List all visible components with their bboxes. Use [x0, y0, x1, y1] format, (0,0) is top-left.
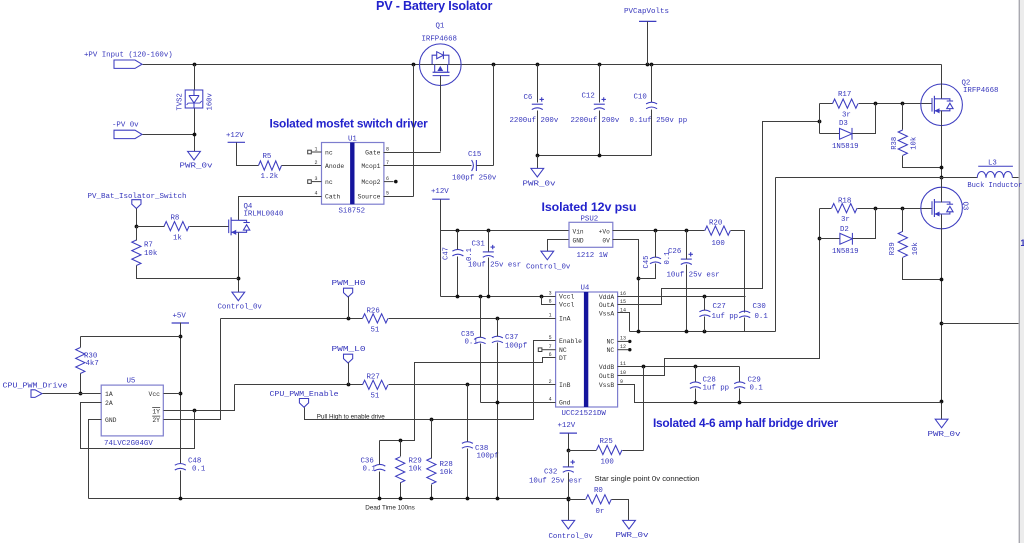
svg-text:0.1: 0.1	[363, 466, 377, 474]
junction PWM_L0 stem	[347, 383, 351, 387]
resistor R17	[833, 99, 859, 108]
svg-text:R28: R28	[440, 461, 453, 469]
junctions rail B	[456, 295, 544, 299]
svg-text:Control_0v: Control_0v	[218, 303, 263, 311]
Q1 channel and gate bars	[433, 64, 450, 75]
wire R18 right to Q3 gate	[858, 208, 933, 210]
resistor R5	[259, 161, 282, 170]
svg-text:PV_Bat_Isolator_Switch: PV_Bat_Isolator_Switch	[88, 193, 187, 201]
wire Q4 source down	[238, 233, 240, 293]
svg-text:NC: NC	[607, 347, 615, 354]
wire R29 bottom	[400, 483, 402, 499]
wire PWM_H0 stem	[348, 297, 350, 319]
wire U4 OutB to Q3 gate net	[618, 209, 820, 376]
wire R18 left lead	[820, 208, 832, 210]
svg-text:0.1: 0.1	[755, 313, 769, 321]
svg-text:Pull High to enable drive: Pull High to enable drive	[317, 413, 386, 420]
svg-text:Control_0v: Control_0v	[526, 264, 571, 272]
wire C10 top	[651, 65, 653, 103]
svg-text:3r: 3r	[842, 112, 851, 120]
junction cap bank rail	[536, 154, 602, 158]
junction Q3 source / R39	[940, 278, 944, 282]
wire R38 top	[902, 104, 904, 130]
resistor R20	[705, 226, 731, 235]
port PWM_L0	[344, 354, 353, 363]
svg-text:+12V: +12V	[431, 188, 449, 196]
svg-text:PV - Battery Isolator: PV - Battery Isolator	[376, 0, 492, 13]
wire Vccl pin8 stub	[542, 297, 556, 305]
svg-text:10k: 10k	[409, 466, 423, 474]
wire D3 right up to R17 node	[853, 104, 876, 134]
svg-text:2200uf 200v: 2200uf 200v	[510, 117, 559, 125]
svg-text:C45: C45	[643, 256, 651, 269]
wire C27 top	[704, 297, 706, 311]
capacitor C26	[681, 252, 693, 264]
svg-text:2Y: 2Y	[152, 417, 160, 424]
wire U1 Cath to Q4 drain	[239, 197, 322, 221]
wire DT net	[380, 358, 556, 441]
svg-text:10k: 10k	[440, 469, 454, 477]
resistor R29	[396, 457, 405, 483]
power +5V	[172, 322, 189, 324]
svg-text:C10: C10	[634, 94, 647, 102]
transistor Q2 symbol	[932, 96, 953, 114]
svg-text:-PV 0v: -PV 0v	[112, 121, 139, 129]
wire C32 bottom	[568, 473, 570, 521]
svg-text:Source: Source	[357, 194, 380, 201]
wire U1 Mcop1 to C15	[384, 165, 472, 167]
svg-text:C48: C48	[188, 457, 201, 465]
wire D3 left lead	[820, 133, 840, 135]
transistor Q3 symbol	[932, 199, 953, 217]
resistor R26	[363, 314, 389, 323]
svg-text:nc: nc	[325, 149, 333, 156]
wire C15 to bus branch	[477, 165, 494, 167]
svg-text:VddB: VddB	[599, 364, 615, 371]
svg-text:Gnd: Gnd	[559, 399, 571, 406]
svg-text:8: 8	[386, 146, 389, 152]
op-amp U1 Si8752 box	[322, 143, 384, 205]
wire U5 GND	[89, 420, 102, 499]
svg-text:1: 1	[1020, 238, 1024, 248]
wire C6 bottom	[537, 111, 539, 156]
Q3 MOSFET circle	[921, 187, 963, 229]
wire U4 VssA to rail	[618, 313, 630, 332]
wire U4 Gnd row	[481, 402, 556, 404]
wire C27 bottom	[704, 317, 706, 332]
svg-text:10uf 25v esr: 10uf 25v esr	[468, 261, 521, 269]
page right edge strip	[1019, 0, 1024, 543]
wire R25 right lead	[623, 450, 644, 452]
wire InA row (PWM_H0 net)	[221, 318, 556, 320]
capacitor C36	[374, 464, 385, 470]
svg-text:OutA: OutA	[599, 302, 615, 309]
svg-text:Vccl: Vccl	[559, 294, 575, 301]
svg-text:4: 4	[549, 396, 552, 402]
wire 1Y to 2A loop	[81, 403, 195, 449]
junction PWM_H0 stem	[347, 317, 351, 321]
svg-text:R17: R17	[838, 91, 851, 99]
port +PV Input	[114, 60, 142, 68]
wire U4 VssB to PWR_0v rail	[618, 385, 942, 403]
svg-text:0.1: 0.1	[466, 248, 474, 261]
capacitor C10	[646, 102, 657, 109]
wire right feed to edge	[942, 323, 1019, 325]
wire TVS2 bottom to -PV node	[194, 109, 196, 152]
svg-text:R18: R18	[838, 197, 851, 205]
svg-text:DT: DT	[559, 355, 567, 362]
wire R39 top	[902, 209, 904, 232]
wire C47 bottom	[457, 257, 459, 297]
junctions R18 out / R39	[874, 207, 905, 211]
svg-text:C15: C15	[468, 151, 481, 159]
wire U4 VddA row	[618, 296, 746, 298]
U4 NC stub pin7	[538, 348, 555, 352]
wire R25 left lead	[569, 450, 597, 452]
wire half-bridge VssA link	[775, 178, 777, 332]
svg-text:1212 1W: 1212 1W	[577, 252, 609, 260]
svg-text:Mcop2: Mcop2	[361, 179, 380, 186]
svg-text:PWR_0v: PWR_0v	[616, 532, 650, 540]
wire U1 Gate to Q1	[384, 152, 441, 154]
power module PSU2 box	[569, 222, 613, 247]
wire C32 top	[568, 451, 570, 467]
capacitor C48	[175, 464, 186, 471]
wire R30 top link	[81, 336, 181, 338]
svg-text:C6: C6	[524, 94, 533, 102]
svg-text:Star single point 0v connectio: Star single point 0v connection	[595, 474, 700, 483]
svg-text:UCC21521DW: UCC21521DW	[562, 410, 607, 418]
wire +PV bus	[143, 64, 942, 66]
wire switch node bus	[776, 177, 1019, 179]
wire VddB to R25	[643, 367, 645, 451]
junction star point	[567, 498, 571, 502]
wire PSU2 GND to Control_0v	[548, 240, 569, 252]
svg-text:7: 7	[549, 344, 552, 350]
svg-text:NC: NC	[559, 347, 567, 354]
svg-text:Isolated 4-6 amp half bridge d: Isolated 4-6 amp half bridge driver	[653, 416, 838, 430]
svg-text:IRFP4668: IRFP4668	[422, 36, 457, 44]
svg-text:CPU_PWM_Drive: CPU_PWM_Drive	[3, 382, 68, 390]
wire R28 bottom	[431, 485, 433, 499]
svg-text:0.1uf 250v pp: 0.1uf 250v pp	[630, 117, 688, 125]
junction InB / C38	[466, 383, 470, 387]
capacitor C32	[563, 460, 575, 472]
wire InB row (PWM_L0 net)	[235, 384, 556, 386]
wire R39 bottom	[903, 258, 942, 280]
svg-text:R20: R20	[709, 219, 722, 227]
junction Q4 source / R7	[237, 277, 241, 281]
wire cap bank 0v rail	[538, 155, 652, 156]
resistor R0	[586, 495, 612, 504]
driver U4 UCC21521DW box	[556, 292, 618, 407]
svg-text:6: 6	[386, 176, 389, 182]
wire C12 top	[599, 65, 601, 103]
svg-text:1k: 1k	[173, 234, 182, 242]
U4 NC stub pin12	[618, 348, 632, 351]
svg-text:Gate: Gate	[365, 149, 381, 156]
svg-text:+12V: +12V	[558, 422, 576, 430]
wire C35 top	[480, 297, 482, 338]
junction Enable / R28	[430, 418, 434, 422]
U1 nc stub pin3	[308, 180, 322, 184]
wire C37 top	[497, 319, 499, 337]
power +12V (R5)	[228, 141, 245, 143]
svg-text:1: 1	[549, 313, 552, 319]
svg-text:Enable: Enable	[559, 338, 582, 345]
wire CPU_PWM_Drive to 1A	[43, 393, 102, 395]
wire rail B Vccl	[441, 296, 556, 298]
svg-text:NC: NC	[607, 339, 615, 346]
wire R8 to Q4 gate	[190, 226, 229, 228]
svg-text:10k: 10k	[144, 250, 158, 258]
svg-text:13: 13	[620, 336, 626, 342]
svg-text:GND: GND	[573, 238, 584, 245]
junction DT / R29	[399, 439, 403, 443]
svg-text:100pf 250v: 100pf 250v	[452, 174, 497, 182]
wire R17/D3 left leg	[819, 104, 821, 134]
svg-text:51: 51	[371, 393, 380, 401]
svg-text:C12: C12	[582, 93, 595, 101]
wire C28 bottom	[695, 389, 697, 403]
U1 Mcop2 stub pin6	[384, 180, 398, 184]
ground PWR_0v (cap bank)	[531, 168, 544, 177]
wire +5V riser below C48	[180, 471, 182, 499]
svg-text:1Y: 1Y	[152, 408, 160, 415]
wire PWM_L0 stem	[348, 363, 350, 385]
resistor R18	[832, 204, 858, 213]
inductor L3	[977, 172, 1012, 178]
svg-text:1A: 1A	[105, 391, 113, 398]
wire VssA rail	[630, 331, 776, 333]
svg-text:+PV Input (120-160v): +PV Input (120-160v)	[84, 51, 173, 59]
svg-text:U1: U1	[348, 135, 357, 143]
wire switch port to R8 node	[136, 209, 138, 227]
svg-text:100: 100	[712, 240, 725, 248]
junction +5V / R30 top	[179, 335, 183, 339]
wire C47 top	[457, 231, 459, 250]
junction R30 / 1A	[79, 392, 83, 396]
wire R8 left lead	[137, 226, 165, 228]
svg-text:0.1: 0.1	[465, 338, 479, 346]
svg-text:InB: InB	[559, 382, 571, 389]
svg-text:3: 3	[314, 176, 317, 182]
wire R18/D2 left leg	[819, 209, 821, 239]
svg-text:3: 3	[549, 291, 552, 297]
junction R8/R7	[135, 225, 139, 229]
svg-text:160v: 160v	[207, 93, 215, 111]
svg-text:+5V: +5V	[173, 312, 187, 320]
wire -PV to TVS2 node	[143, 134, 195, 136]
resistor R7	[132, 240, 141, 266]
U1 nc stub pin1	[308, 150, 322, 154]
resistor R28	[427, 458, 436, 484]
wire R7 bottom to Q4 source	[137, 266, 239, 279]
wire C35 bottom	[480, 344, 482, 403]
svg-text:C36: C36	[361, 457, 374, 465]
wire R17 left lead	[820, 103, 833, 105]
svg-text:12: 12	[620, 344, 626, 350]
capacitor C28	[690, 382, 701, 388]
svg-text:74LVC2G04GV: 74LVC2G04GV	[104, 440, 153, 448]
junction dots on +PV bus	[193, 63, 654, 67]
wire +5V riser	[180, 323, 182, 464]
svg-text:OutB: OutB	[599, 373, 615, 380]
svg-text:2200uf 200v: 2200uf 200v	[571, 117, 620, 125]
svg-text:Vin: Vin	[573, 228, 584, 235]
wire PVCapVolts stem	[647, 22, 649, 65]
wire R17 right to Q2 gate	[859, 103, 933, 105]
svg-text:R25: R25	[600, 438, 613, 446]
wire R38 bottom	[903, 156, 942, 168]
wire C29 top	[739, 367, 741, 382]
svg-text:C28: C28	[703, 376, 716, 384]
svg-text:10k: 10k	[912, 242, 920, 255]
wire C45 bottom	[639, 264, 656, 279]
TVS2 transient suppressor	[185, 90, 203, 108]
svg-text:PSU2: PSU2	[581, 215, 599, 223]
svg-text:PVCapVolts: PVCapVolts	[624, 8, 669, 16]
svg-text:100pf: 100pf	[505, 342, 527, 350]
wire C26 bottom	[686, 265, 688, 332]
svg-text:C29: C29	[748, 376, 761, 384]
svg-text:Dead Time 100ns: Dead Time 100ns	[365, 505, 415, 512]
svg-text:1N5819: 1N5819	[832, 248, 859, 256]
capacitor C15	[472, 160, 477, 171]
resistor R27	[363, 380, 389, 389]
svg-text:PWM_H0: PWM_H0	[332, 280, 366, 288]
wire U4 VddB row	[618, 366, 740, 368]
capacitor C35	[475, 337, 486, 344]
svg-text:10k: 10k	[911, 137, 919, 150]
junctions R17 out / R38	[874, 102, 905, 106]
wire Enable rail	[305, 341, 556, 420]
svg-text:Anode: Anode	[325, 163, 344, 170]
junction InA / C37	[496, 317, 500, 321]
svg-text:R5: R5	[263, 153, 272, 161]
svg-text:1: 1	[314, 146, 317, 152]
wire +12V riser / C47 C31 left leg	[440, 200, 442, 297]
capacitor C47	[452, 249, 463, 255]
junction R25 / C32	[567, 449, 571, 453]
svg-text:PWR_0v: PWR_0v	[928, 431, 962, 439]
port PV_Bat_Isolator_Switch	[132, 200, 141, 209]
svg-text:IRLML0040: IRLML0040	[244, 210, 284, 218]
wire D2 left lead	[820, 238, 840, 240]
wire C30 bottom	[744, 318, 746, 332]
ground PWR_0v (right)	[935, 419, 948, 428]
wire +12V to R25 node	[568, 434, 570, 451]
svg-text:D3: D3	[839, 120, 848, 128]
capacitor C38	[462, 442, 473, 449]
svg-text:R38: R38	[891, 137, 899, 150]
resistor R8	[164, 222, 189, 231]
svg-text:10uf 25v esr: 10uf 25v esr	[667, 271, 720, 279]
port -PV 0v	[114, 130, 142, 138]
svg-text:InA: InA	[559, 316, 571, 323]
wire Q3 source down	[941, 215, 943, 420]
svg-text:R26: R26	[367, 307, 380, 315]
wire Q1 gate stem down	[440, 76, 442, 152]
wire rail A +12V to PSU2 Vin	[441, 230, 569, 232]
power +12V (rail A)	[432, 198, 449, 200]
svg-text:7: 7	[386, 160, 389, 166]
svg-text:C26: C26	[668, 248, 681, 256]
resistor R30	[76, 348, 85, 374]
svg-text:100pf: 100pf	[477, 453, 499, 461]
diode D2	[840, 233, 853, 245]
junction Gnd / C37	[496, 401, 500, 405]
svg-text:VssA: VssA	[599, 310, 615, 317]
wire C29 bottom	[739, 389, 741, 403]
junction +5V / Vcc	[179, 392, 183, 396]
svg-text:Vcc: Vcc	[148, 391, 160, 398]
svg-text:R0: R0	[594, 487, 603, 495]
svg-text:15: 15	[620, 299, 626, 305]
power bar PVCapVolts	[639, 20, 656, 22]
svg-text:0.1: 0.1	[192, 466, 206, 474]
wire C45 top	[655, 231, 657, 258]
capacitor C27	[699, 310, 710, 317]
svg-text:0r: 0r	[596, 508, 605, 516]
logic U5 74LVC2G04 box	[101, 385, 163, 436]
U4 NC stub pin13	[618, 340, 632, 343]
ground PWR_0v (star)	[623, 520, 636, 529]
capacitor C37	[492, 336, 503, 343]
svg-text:L3: L3	[988, 160, 997, 168]
wire R30 leads	[80, 337, 82, 394]
wire Q1 bus to C15 branch	[493, 65, 495, 166]
wire D2 right up to R18 node	[853, 209, 876, 239]
resistor R39	[898, 231, 907, 257]
svg-text:+Vo: +Vo	[599, 228, 610, 235]
Q1 body diode loop	[432, 51, 449, 64]
junction 0v / C45 bottom	[637, 277, 641, 281]
svg-text:Buck Inductor: Buck Inductor	[967, 182, 1022, 190]
wire C38 bottom	[467, 449, 469, 499]
junction -PV / TVS2	[193, 133, 197, 137]
svg-text:C32: C32	[544, 469, 557, 477]
svg-text:0V: 0V	[602, 238, 610, 245]
wire bottom 0v rail	[89, 498, 569, 500]
svg-text:C31: C31	[472, 240, 486, 248]
Q1 MOSFET circle	[420, 44, 462, 86]
port CPU_PWM_Enable	[299, 399, 308, 408]
svg-text:5: 5	[386, 191, 389, 197]
wire C37 bottom	[497, 343, 499, 499]
wire C38 top	[467, 385, 469, 442]
svg-text:C30: C30	[753, 303, 766, 311]
svg-text:4k7: 4k7	[86, 360, 99, 368]
svg-text:C38: C38	[475, 445, 488, 453]
capacitor C29	[734, 382, 745, 388]
junction VddA / C27	[703, 295, 707, 299]
wire C12 bottom	[599, 111, 601, 156]
wire PSU2 0v to rail Bp	[613, 240, 639, 332]
svg-text:C37: C37	[505, 334, 518, 342]
svg-text:R7: R7	[144, 242, 153, 250]
wire R0 left lead	[569, 499, 586, 501]
svg-text:Isolated 12v psu: Isolated 12v psu	[542, 200, 637, 214]
port CPU_PWM_Drive	[31, 390, 42, 398]
wire Q2 source down	[941, 111, 943, 199]
svg-text:VddA: VddA	[599, 294, 615, 301]
svg-text:PWR_0v: PWR_0v	[523, 180, 557, 188]
svg-text:Cath: Cath	[325, 194, 341, 201]
svg-text:D2: D2	[840, 226, 849, 234]
svg-text:IRFP4668: IRFP4668	[963, 87, 998, 95]
svg-text:nc: nc	[325, 179, 333, 186]
